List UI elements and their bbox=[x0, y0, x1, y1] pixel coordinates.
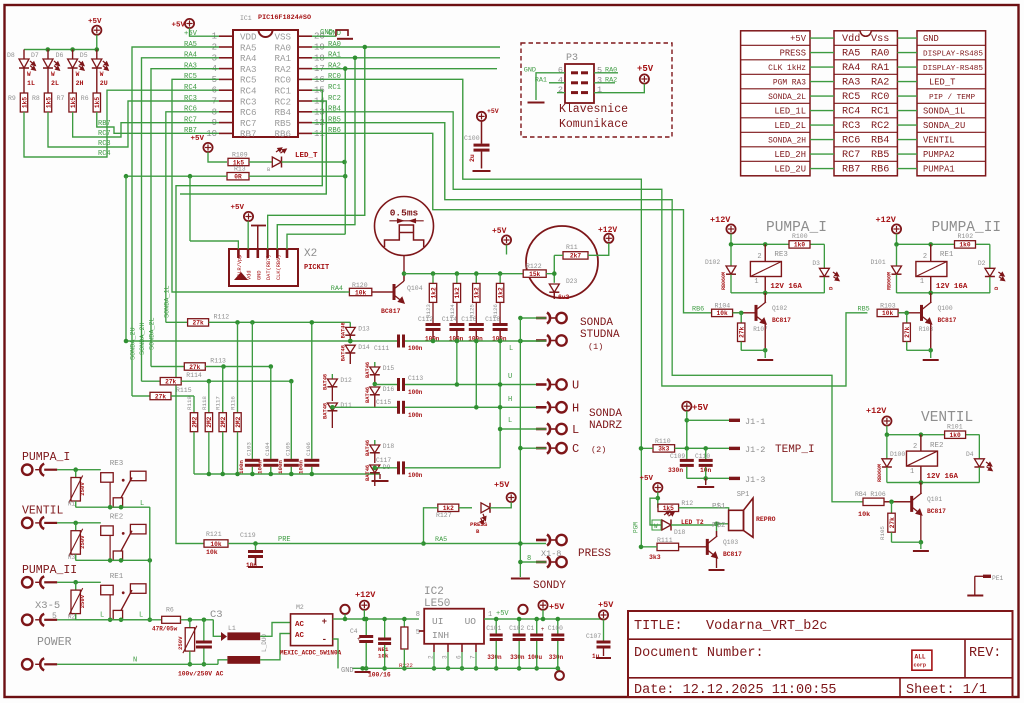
diodes D15/D16 (BAT46) bbox=[374, 362, 376, 367]
junction RA1/CLK bbox=[353, 56, 358, 61]
junction C bbox=[518, 446, 523, 451]
svg-text:BC817: BC817 bbox=[938, 317, 957, 324]
capacitor C101 (330n) bbox=[495, 619, 497, 634]
supply +12V (rail) bbox=[360, 601, 369, 610]
ground (P3) bbox=[528, 102, 545, 104]
svg-text:27k: 27k bbox=[904, 326, 911, 337]
svg-text:D3: D3 bbox=[812, 260, 820, 267]
svg-text:R115: R115 bbox=[176, 387, 192, 394]
svg-text:2k7: 2k7 bbox=[570, 253, 581, 260]
svg-text:RC5: RC5 bbox=[842, 92, 860, 103]
svg-text:R1: R1 bbox=[68, 501, 76, 508]
wire INH stub bbox=[419, 630, 424, 632]
wire L bus bbox=[149, 507, 151, 620]
svg-text:330n: 330n bbox=[668, 467, 683, 474]
svg-text:ALL: ALL bbox=[915, 654, 926, 661]
capacitor C102 (330n) bbox=[518, 619, 520, 634]
svg-text:C114: C114 bbox=[442, 316, 457, 323]
resistor R11 (2k7) bbox=[563, 252, 588, 259]
svg-text:+5V: +5V bbox=[790, 34, 807, 44]
svg-text:MCLR/Vpp: MCLR/Vpp bbox=[237, 255, 243, 280]
svg-text:RA0: RA0 bbox=[871, 49, 889, 60]
junction C106/R112 bbox=[310, 320, 315, 325]
svg-text:W: W bbox=[27, 71, 31, 78]
svg-text:2: 2 bbox=[757, 253, 761, 261]
svg-text:27k: 27k bbox=[193, 320, 204, 327]
relay RE2 coil bbox=[907, 451, 938, 466]
svg-text:-: - bbox=[322, 635, 327, 645]
svg-text:1k0: 1k0 bbox=[959, 242, 970, 249]
wire Q103 emitter bbox=[716, 558, 718, 568]
svg-text:D7: D7 bbox=[31, 52, 39, 59]
transistor Q103 BC817 bbox=[716, 524, 718, 531]
svg-text:LED_T: LED_T bbox=[929, 78, 955, 88]
svg-text:+: + bbox=[357, 636, 361, 643]
wire P3 pin2 bbox=[557, 92, 565, 94]
wire R113 row bbox=[205, 366, 270, 368]
junction C115/C116 bbox=[474, 405, 479, 410]
svg-text:SONDA_1L: SONDA_1L bbox=[923, 107, 965, 117]
svg-text:RB060M: RB060M bbox=[877, 464, 883, 482]
svg-text:+5V: +5V bbox=[549, 602, 565, 612]
svg-text:10k: 10k bbox=[210, 541, 221, 548]
svg-text:SONDA_1L: SONDA_1L bbox=[163, 285, 171, 318]
svg-text:R109: R109 bbox=[232, 152, 248, 159]
svg-text:C116: C116 bbox=[461, 316, 476, 323]
ground (divider bus) bbox=[379, 474, 381, 479]
diodes D13/D14 (BAT46) bbox=[349, 322, 351, 327]
svg-text:2: 2 bbox=[923, 253, 927, 261]
svg-text:LED_2L: LED_2L bbox=[774, 121, 806, 131]
wire RA4 to R120 bbox=[345, 291, 349, 293]
op-amp IC1 PIC16F1824 (microcontroller) bbox=[233, 30, 298, 137]
junction press bbox=[518, 541, 523, 546]
svg-text:RE1: RE1 bbox=[110, 573, 124, 581]
LED D3 (PUMPA_I) bbox=[823, 244, 825, 268]
supply +12V (zener) bbox=[604, 234, 613, 243]
junction bus R125 bbox=[474, 271, 479, 276]
svg-text:100n: 100n bbox=[297, 460, 304, 474]
svg-text:27k: 27k bbox=[739, 326, 746, 337]
svg-text:R111: R111 bbox=[657, 537, 673, 544]
svg-text:RC3: RC3 bbox=[240, 96, 257, 107]
svg-text:Date: 12.12.2025 11:00:55: Date: 12.12.2025 11:00:55 bbox=[634, 683, 837, 698]
junction R122/D23 bbox=[552, 271, 557, 276]
svg-text:1k5: 1k5 bbox=[94, 97, 101, 108]
wire press row2 bbox=[520, 561, 546, 563]
svg-text:+5V: +5V bbox=[171, 22, 185, 30]
svg-text:BAT46: BAT46 bbox=[365, 362, 371, 378]
svg-text:IC2: IC2 bbox=[424, 586, 444, 598]
supply +5V (LED rail) bbox=[92, 26, 101, 35]
svg-text:PRE: PRE bbox=[278, 536, 291, 544]
svg-text:Vss: Vss bbox=[871, 34, 889, 45]
svg-text:VENTIL: VENTIL bbox=[22, 504, 64, 517]
svg-text:R11: R11 bbox=[566, 244, 578, 251]
wire RC7 (LED D6 to IC pin9) bbox=[73, 112, 219, 137]
wire VENTIL bottom row bbox=[76, 559, 150, 561]
svg-text:0.5ms: 0.5ms bbox=[390, 208, 419, 219]
svg-text:RA2: RA2 bbox=[871, 78, 889, 89]
wire RA4 net (IC pin3) bbox=[142, 58, 220, 381]
junction R113/R117 bbox=[221, 364, 226, 369]
svg-text:C: C bbox=[572, 442, 579, 456]
resistor R127 (1k2) bbox=[438, 504, 459, 511]
resistor R107 (27k) bbox=[740, 313, 742, 323]
supply +5V (P3) bbox=[640, 74, 649, 83]
wire R112 row bbox=[209, 321, 351, 323]
svg-text:Q104: Q104 bbox=[407, 285, 423, 292]
wire relay bottom (VENTIL) bbox=[887, 482, 980, 484]
capacitor C104 (100n) bbox=[263, 459, 278, 462]
svg-text:PRESS: PRESS bbox=[578, 548, 611, 560]
svg-text:RB5: RB5 bbox=[328, 116, 341, 124]
wire R115 row bbox=[171, 395, 194, 397]
wire RA2 net (pin17) bbox=[312, 68, 497, 70]
junction varistor PUMPA_II bbox=[73, 580, 78, 585]
svg-text:250V: 250V bbox=[79, 594, 86, 608]
svg-text:+5V: +5V bbox=[598, 600, 614, 610]
junction R127/press bbox=[421, 541, 426, 546]
svg-text:W: W bbox=[51, 71, 55, 78]
wire PUMPA_I row bbox=[57, 469, 100, 471]
svg-text:R122: R122 bbox=[526, 263, 542, 270]
svg-text:+: + bbox=[541, 626, 545, 633]
resistor R103 (10k) bbox=[877, 309, 898, 316]
svg-text:LED_2H: LED_2H bbox=[774, 150, 806, 160]
svg-text:C113: C113 bbox=[408, 375, 423, 382]
capacitor C118 (100n) bbox=[493, 323, 508, 326]
LED D4 (VENTIL) bbox=[978, 435, 980, 459]
svg-text:10k: 10k bbox=[858, 511, 870, 519]
svg-text:2M2: 2M2 bbox=[220, 416, 227, 427]
svg-text:1k2: 1k2 bbox=[430, 287, 437, 298]
svg-text:RB060M: RB060M bbox=[887, 272, 893, 290]
svg-text:27k: 27k bbox=[165, 379, 176, 386]
wire +12V bus (PUMPA_I) bbox=[730, 234, 732, 245]
wire relay bottom (PUMPA_I) bbox=[731, 292, 824, 294]
svg-text:L1: L1 bbox=[228, 625, 236, 632]
supply +5V (rail) bbox=[538, 601, 547, 610]
junction D15/D16 bbox=[373, 382, 378, 387]
svg-text:PGM RA3: PGM RA3 bbox=[773, 79, 806, 88]
svg-text:RE2: RE2 bbox=[110, 513, 124, 521]
wire RB4 net (pin13) bbox=[312, 112, 867, 386]
svg-text:100n: 100n bbox=[408, 345, 423, 352]
svg-text:SONDA: SONDA bbox=[580, 317, 613, 329]
svg-text:L: L bbox=[572, 423, 579, 437]
wire N to choke bbox=[218, 660, 227, 664]
big circle (detector) bbox=[526, 226, 598, 298]
svg-text:C118: C118 bbox=[485, 316, 500, 323]
ground (PUMPA_I) bbox=[757, 359, 773, 361]
capacitor C114 (100n) bbox=[449, 323, 464, 326]
svg-text:R121: R121 bbox=[206, 531, 222, 538]
svg-text:RC5: RC5 bbox=[240, 75, 257, 86]
junction R113/C104 bbox=[269, 364, 274, 369]
supply +5V (repro) bbox=[653, 483, 662, 492]
svg-text:SONDA_2H: SONDA_2H bbox=[139, 322, 147, 355]
wire module - down bbox=[333, 639, 338, 668]
svg-text:CLK 1kHz: CLK 1kHz bbox=[768, 64, 806, 73]
svg-text:W: W bbox=[76, 71, 80, 78]
svg-text:100n: 100n bbox=[256, 460, 263, 474]
supply +5V (mid) bbox=[502, 235, 511, 244]
svg-text:SONDA_2H: SONDA_2H bbox=[768, 137, 806, 146]
resistor R109 bbox=[228, 158, 249, 165]
wire +12V bus (PUMPA_II) bbox=[896, 234, 898, 245]
resistor R121 (10k) bbox=[204, 540, 228, 547]
svg-text:100/16: 100/16 bbox=[368, 672, 391, 679]
svg-text:C105: C105 bbox=[284, 442, 291, 456]
svg-text:R9: R9 bbox=[8, 95, 16, 102]
capacitor C116 (100n) bbox=[469, 323, 484, 326]
svg-text:+12V: +12V bbox=[710, 215, 731, 225]
svg-text:Q103: Q103 bbox=[723, 539, 738, 546]
wire R120 to Q104 base bbox=[372, 291, 394, 293]
svg-text:D23: D23 bbox=[566, 278, 578, 285]
wire RA3 net (IC pin4) bbox=[151, 69, 219, 367]
wire R114 row bbox=[181, 380, 291, 382]
wire R110 left bbox=[641, 447, 653, 449]
wire RC3 (LED D7 to IC pin7) bbox=[48, 101, 219, 147]
resistor R113 (27k) bbox=[151, 366, 184, 368]
junction PS2 bbox=[714, 522, 719, 527]
wire R127 left bbox=[424, 508, 438, 544]
svg-text:BAT46: BAT46 bbox=[365, 440, 371, 456]
resistor R118 (2M2) bbox=[208, 381, 210, 413]
svg-text:AC: AC bbox=[295, 632, 305, 640]
relay contact RE1 bbox=[101, 585, 114, 595]
svg-text:STUDNA: STUDNA bbox=[580, 329, 620, 341]
capacitor C112 (100n) bbox=[426, 323, 441, 326]
svg-text:2L: 2L bbox=[51, 80, 59, 87]
connector POWER L bbox=[22, 615, 32, 625]
junction press2 bbox=[518, 560, 523, 565]
resistor R101 (1k0) bbox=[945, 431, 966, 438]
svg-text:47R/05w: 47R/05w bbox=[152, 626, 178, 633]
speaker SP1 REPRO bbox=[729, 510, 744, 530]
svg-text:VSS: VSS bbox=[274, 32, 291, 43]
svg-text:100v/250V AC: 100v/250V AC bbox=[178, 671, 224, 678]
svg-text:U: U bbox=[572, 379, 579, 393]
svg-text:L: L bbox=[508, 417, 512, 425]
svg-text:N: N bbox=[133, 657, 137, 665]
resistor R124 (1k2) bbox=[456, 274, 458, 284]
svg-text:RB5: RB5 bbox=[274, 118, 291, 129]
ground (SONDY) bbox=[511, 578, 530, 580]
svg-text:Q101: Q101 bbox=[927, 496, 942, 503]
svg-text:15k: 15k bbox=[529, 271, 540, 278]
svg-text:H: H bbox=[508, 396, 512, 404]
svg-text:L: L bbox=[509, 345, 513, 353]
svg-text:RC4: RC4 bbox=[98, 150, 111, 158]
svg-text:RC7: RC7 bbox=[240, 118, 257, 129]
svg-text:J1-1: J1-1 bbox=[745, 417, 765, 427]
wire C118 col down bbox=[499, 341, 501, 468]
svg-text:C3: C3 bbox=[210, 609, 223, 621]
svg-text:BAT46: BAT46 bbox=[322, 374, 328, 390]
wire C116 col down bbox=[475, 341, 477, 407]
wire +5V repro bbox=[657, 492, 659, 508]
svg-text:1L: 1L bbox=[27, 80, 35, 87]
svg-text:D102: D102 bbox=[705, 259, 720, 266]
svg-text:SONDA_2U: SONDA_2U bbox=[923, 121, 965, 131]
wire +12V drop bbox=[588, 243, 609, 255]
junction R13/LED_T bbox=[343, 174, 348, 179]
svg-text:Q100: Q100 bbox=[938, 305, 953, 312]
svg-text:BC817: BC817 bbox=[927, 508, 946, 515]
diodes D12/D11 (BAT46) bbox=[331, 374, 333, 379]
svg-text:330n: 330n bbox=[487, 654, 502, 661]
svg-text:C101: C101 bbox=[486, 625, 501, 632]
svg-text:BAT46: BAT46 bbox=[365, 387, 371, 403]
capacitor C4 (electrolytic) bbox=[365, 619, 367, 635]
svg-text:PUMPA_I: PUMPA_I bbox=[22, 451, 70, 464]
connector POWER N bbox=[22, 659, 32, 669]
svg-text:W: W bbox=[100, 71, 104, 78]
svg-text:RC3: RC3 bbox=[98, 140, 111, 148]
svg-text:330n: 330n bbox=[510, 654, 525, 661]
wire emitter row (PUMPA_I) bbox=[741, 349, 765, 351]
junction LED rail bbox=[46, 47, 51, 52]
svg-text:6: 6 bbox=[558, 65, 563, 75]
resistor R116 (2M2) bbox=[237, 322, 239, 412]
port ring +5V bbox=[518, 605, 527, 614]
wire P3 RA0 bbox=[594, 72, 618, 74]
wire P3 RA2 bbox=[594, 82, 615, 84]
svg-text:R13: R13 bbox=[234, 166, 246, 173]
capacitor C113 (100n) bbox=[375, 384, 397, 386]
supply +12V (VENTIL) bbox=[882, 416, 891, 425]
port ring gnd bbox=[559, 668, 561, 671]
junction Q104 collector bbox=[402, 271, 407, 276]
svg-text:SONDA_2L: SONDA_2L bbox=[149, 317, 157, 350]
junction bus R123 bbox=[431, 271, 436, 276]
svg-text:J1-2: J1-2 bbox=[745, 445, 765, 455]
wire base node (PUMPA_II) bbox=[898, 312, 907, 314]
wire X2 CLK (RA1) bbox=[277, 58, 355, 249]
svg-text:R120: R120 bbox=[352, 282, 368, 289]
wire RA1 net (pin18) bbox=[312, 57, 500, 59]
svg-text:LED_T: LED_T bbox=[295, 152, 318, 160]
capacitor C106 (100n) bbox=[304, 459, 319, 462]
svg-text:CLK(RB6): CLK(RB6) bbox=[276, 255, 282, 280]
svg-text:+5V: +5V bbox=[494, 480, 510, 490]
varistor R2 (250V) bbox=[75, 582, 77, 590]
svg-text:RA5: RA5 bbox=[842, 49, 860, 60]
capacitor C105 (100n) bbox=[284, 459, 299, 462]
svg-text:8: 8 bbox=[416, 611, 420, 619]
capacitor NE1 bbox=[384, 619, 386, 638]
dashed box (P3 keyboard/comm) bbox=[521, 43, 672, 137]
svg-text:RC0: RC0 bbox=[871, 92, 889, 103]
svg-text:GND: GND bbox=[923, 34, 939, 44]
svg-text:GND: GND bbox=[256, 270, 262, 280]
wire emitter row (VENTIL) bbox=[892, 541, 921, 543]
junction C111/sonda2 bbox=[518, 339, 523, 344]
pin J1-2 bbox=[729, 447, 740, 450]
svg-text:RC6: RC6 bbox=[842, 136, 860, 147]
svg-text:+12V: +12V bbox=[876, 215, 897, 225]
svg-text:+12V: +12V bbox=[355, 590, 376, 600]
wire timer stub bbox=[403, 256, 405, 274]
svg-text:PIP / TEMP: PIP / TEMP bbox=[929, 94, 976, 102]
pins LE50 bottom bbox=[433, 644, 435, 652]
wire to sonda1 bbox=[520, 317, 546, 319]
svg-text:RA3: RA3 bbox=[240, 64, 257, 75]
svg-text:RC3: RC3 bbox=[842, 121, 860, 132]
resistor R108 (27k) bbox=[906, 313, 908, 323]
relay contact RE3 bbox=[101, 473, 114, 483]
svg-text:P3: P3 bbox=[566, 53, 578, 64]
svg-text:MEXIC_ACDC_5W1N0A: MEXIC_ACDC_5W1N0A bbox=[280, 650, 342, 657]
svg-text:D5: D5 bbox=[80, 52, 88, 59]
svg-text:+5V: +5V bbox=[487, 108, 499, 115]
module M2 MEZIC_ACDC_5W1N0A bbox=[291, 614, 333, 646]
wire base (PUMPA_I) bbox=[733, 312, 756, 314]
ground (PUMPA_II) bbox=[923, 359, 939, 361]
title block frame bbox=[628, 611, 1013, 697]
resistor R123 (1k2) bbox=[432, 274, 434, 284]
svg-text:D14: D14 bbox=[358, 344, 370, 351]
svg-text:+5V: +5V bbox=[637, 64, 654, 74]
svg-text:R104: R104 bbox=[715, 302, 731, 309]
svg-text:RC3: RC3 bbox=[184, 95, 197, 103]
svg-text:L: L bbox=[139, 612, 143, 620]
svg-text:2M2: 2M2 bbox=[235, 416, 242, 427]
wire emitter row (PUMPA_II) bbox=[907, 349, 931, 351]
capacitor C100 (2u) bbox=[481, 121, 483, 144]
wire +5V mid drop bbox=[506, 245, 508, 255]
svg-text:12V 16A: 12V 16A bbox=[770, 283, 802, 291]
svg-text:SONDY: SONDY bbox=[533, 580, 566, 592]
wire after R6 bbox=[181, 619, 214, 621]
junction RA2/LED_T bbox=[343, 66, 348, 71]
svg-text:PIC16F1824#SO: PIC16F1824#SO bbox=[258, 14, 311, 22]
svg-text:100n: 100n bbox=[408, 412, 423, 419]
svg-text:RE3: RE3 bbox=[110, 460, 124, 468]
svg-text:RC4: RC4 bbox=[184, 84, 197, 92]
resistor R13 bbox=[227, 173, 249, 180]
wire LE50 out bbox=[484, 618, 604, 620]
svg-text:POWER: POWER bbox=[37, 636, 72, 649]
connector PRESS X1 bbox=[536, 539, 547, 542]
wire P3 pin1 to +5V bbox=[594, 84, 644, 93]
wire C114 col down bbox=[456, 341, 458, 385]
svg-text:RA2: RA2 bbox=[328, 62, 341, 70]
svg-text:RB5: RB5 bbox=[858, 305, 870, 313]
wire VENTIL row bbox=[57, 522, 100, 524]
supply +5V (X2) bbox=[244, 212, 253, 221]
svg-text:+12V: +12V bbox=[866, 406, 887, 416]
svg-text:D8: D8 bbox=[7, 52, 15, 59]
svg-text:LED_1L: LED_1L bbox=[774, 107, 806, 117]
svg-text:3: 3 bbox=[597, 75, 602, 85]
svg-text:D12: D12 bbox=[340, 377, 352, 384]
junction C119 bbox=[253, 541, 258, 546]
wire R110 right to J1-2 bbox=[675, 447, 729, 449]
pin J1-3 bbox=[729, 477, 740, 480]
svg-text:GND: GND bbox=[341, 667, 354, 675]
svg-text:RA3: RA3 bbox=[842, 78, 860, 89]
wire L row bbox=[57, 619, 162, 621]
diode D100 (RB060M) bbox=[886, 435, 888, 459]
svg-text:RB5: RB5 bbox=[871, 150, 889, 161]
svg-text:C103: C103 bbox=[245, 442, 252, 456]
svg-text:1: 1 bbox=[597, 85, 602, 95]
svg-text:2U: 2U bbox=[100, 80, 108, 87]
